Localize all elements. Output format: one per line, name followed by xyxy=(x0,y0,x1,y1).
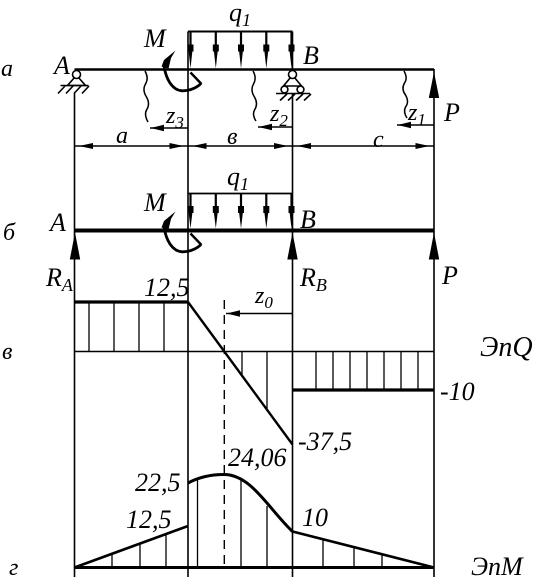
svg-text:б: б xyxy=(3,220,16,246)
svg-text:P: P xyxy=(441,261,458,290)
moment M arc row b xyxy=(162,212,202,252)
force P arrow row b xyxy=(429,233,439,260)
svg-text:z3: z3 xyxy=(165,103,184,132)
frame line x=74.5 xyxy=(74,94,76,578)
distributed load q1 row b xyxy=(188,162,295,229)
svg-text:24,06: 24,06 xyxy=(228,443,287,472)
coordinate z3 squiggle xyxy=(144,71,149,122)
svg-text:в: в xyxy=(2,339,12,365)
dim arrows at x=434 xyxy=(416,143,430,149)
M hatching left xyxy=(112,535,166,567)
z0 arrow xyxy=(226,313,293,315)
svg-text:z1: z1 xyxy=(407,100,426,129)
M hatching right xyxy=(323,540,382,566)
svg-text:-10: -10 xyxy=(440,377,475,406)
Q negative triangle hatching xyxy=(242,352,267,409)
dim arrows at x=188 xyxy=(170,143,184,149)
svg-text:M: M xyxy=(143,188,167,217)
dim arrows at x=292.5 xyxy=(274,143,288,149)
svg-text:г: г xyxy=(9,555,18,579)
svg-text:ЭпМ: ЭпМ xyxy=(471,552,524,579)
Q negative rect -10 bottom line xyxy=(293,388,435,391)
svg-text:z2: z2 xyxy=(269,101,288,130)
svg-text:M: M xyxy=(143,24,167,53)
svg-text:в: в xyxy=(227,124,237,150)
svg-text:z0: z0 xyxy=(254,283,273,312)
coordinate z2 squiggle xyxy=(252,71,257,121)
Q negative rect hatching xyxy=(316,352,418,389)
EpM baseline xyxy=(75,566,435,569)
svg-text:22,5: 22,5 xyxy=(135,468,181,497)
frame line x=434 xyxy=(433,69,435,577)
z0 dashed line xyxy=(223,300,225,567)
reaction RB arrow xyxy=(287,233,297,260)
M hatching middle xyxy=(198,478,268,566)
svg-text:ЭпQ: ЭпQ xyxy=(480,332,533,363)
svg-text:A: A xyxy=(52,51,70,80)
M left slant 12.5 xyxy=(75,526,189,568)
reaction RA arrow xyxy=(70,233,80,260)
svg-text:12,5: 12,5 xyxy=(126,505,172,534)
svg-text:c: c xyxy=(373,127,384,153)
svg-text:A: A xyxy=(48,208,66,237)
svg-text:10: 10 xyxy=(302,503,328,532)
beam AB row a xyxy=(75,68,435,70)
svg-text:q1: q1 xyxy=(227,162,249,194)
beam row b xyxy=(75,229,435,233)
frame line x=188 xyxy=(187,32,189,578)
distributed load q1 row a xyxy=(188,0,295,69)
coordinate z3 arrow xyxy=(150,127,188,129)
svg-text:12,5: 12,5 xyxy=(144,273,190,302)
svg-text:а: а xyxy=(1,56,13,82)
Q slant line xyxy=(188,302,293,445)
svg-text:RA: RA xyxy=(45,263,74,295)
roller support B xyxy=(276,71,311,101)
dim arrows at x=74.5 xyxy=(79,143,93,149)
svg-text:P: P xyxy=(443,98,460,127)
force P row a xyxy=(429,72,460,127)
coordinate z2 arrow xyxy=(258,126,293,128)
svg-text:B: B xyxy=(300,205,316,234)
EpQ baseline xyxy=(75,351,435,353)
Q hatching positive xyxy=(89,303,164,351)
svg-text:-37,5: -37,5 xyxy=(298,427,352,456)
moment M arc row a xyxy=(162,51,202,91)
svg-text:B: B xyxy=(303,41,319,70)
coordinate z1 arrow xyxy=(397,124,434,126)
svg-text:q1: q1 xyxy=(229,0,251,30)
svg-text:RB: RB xyxy=(299,263,327,295)
svg-text:а: а xyxy=(116,123,128,149)
pin support A xyxy=(58,71,89,94)
M right slant to zero xyxy=(293,532,435,568)
M parabola xyxy=(188,475,293,532)
coordinate z1 squiggle xyxy=(403,71,408,118)
Q positive top line 12.5 xyxy=(75,300,189,303)
dimension line row xyxy=(75,145,435,147)
frame line x=292.5 xyxy=(292,32,294,70)
